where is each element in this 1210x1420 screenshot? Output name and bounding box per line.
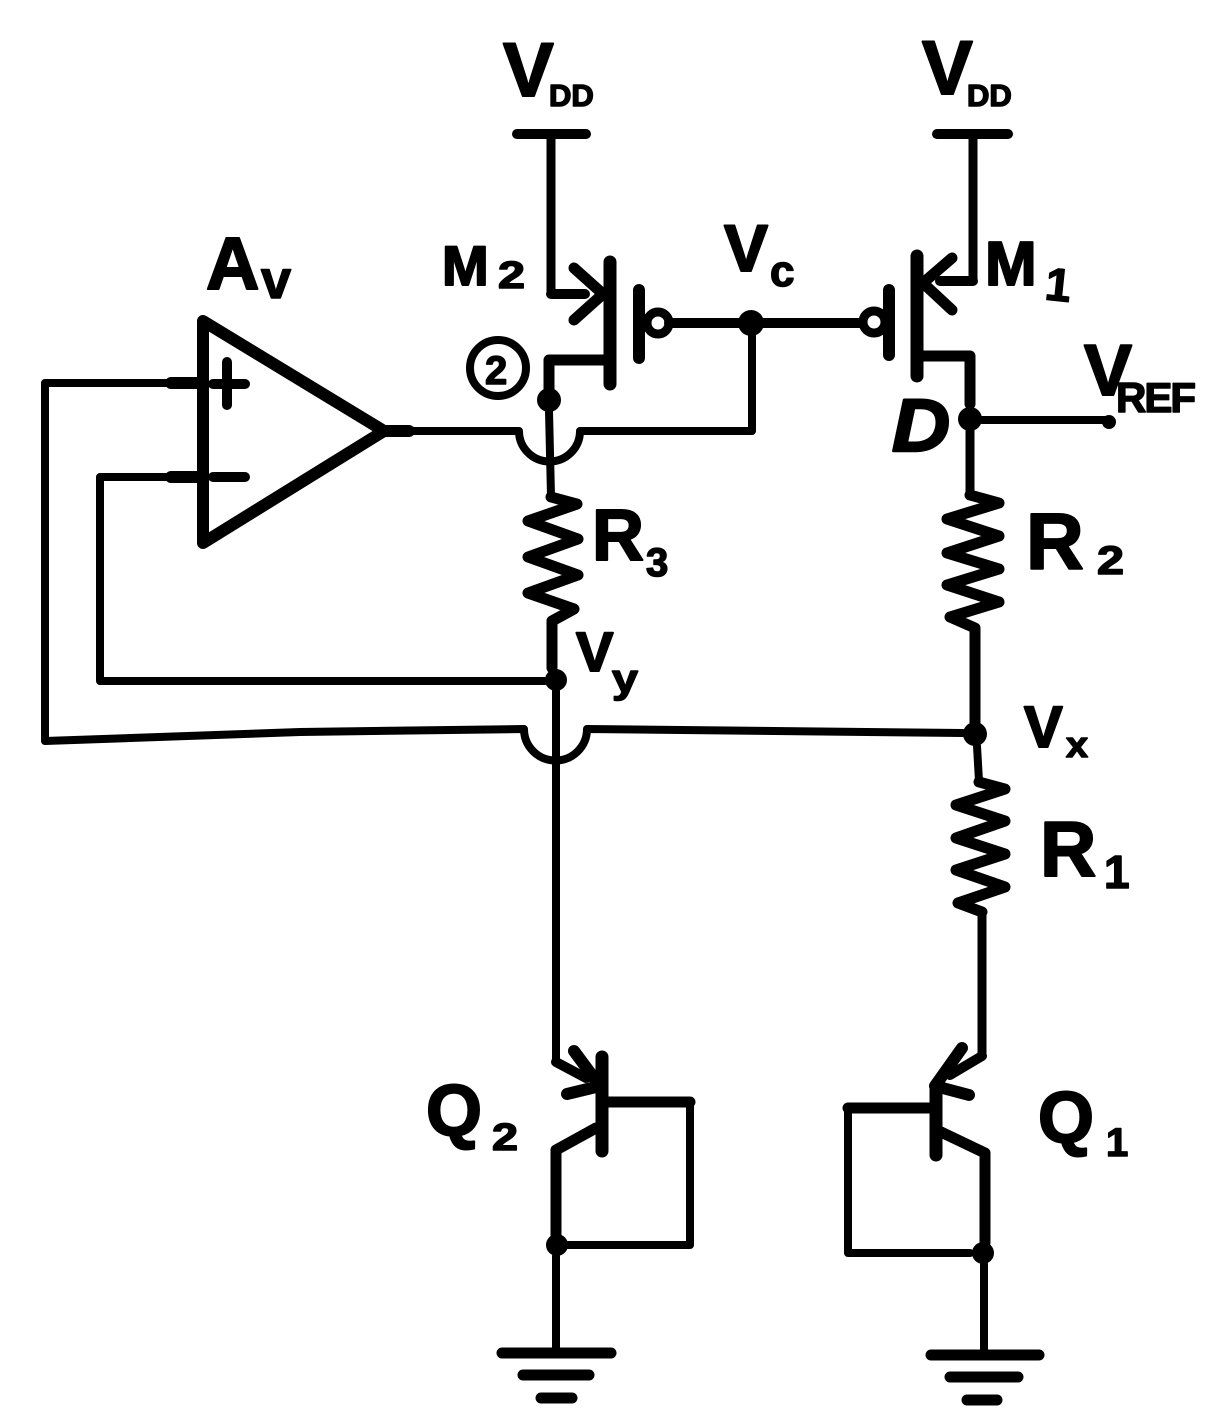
node 2 marker (circled 2) [470, 340, 526, 396]
label VREF [1084, 331, 1195, 421]
svg-text:2: 2 [1097, 539, 1124, 583]
svg-text:y: y [612, 657, 639, 701]
svg-text:REF: REF [1116, 374, 1195, 421]
svg-text:Q: Q [1038, 1078, 1094, 1158]
label VDD left [503, 28, 594, 113]
svg-text:v: v [261, 250, 291, 310]
resistor R1 [956, 782, 1005, 912]
wire Q1 collector to ground [980, 1264, 988, 1353]
wire VREF output [982, 415, 1116, 429]
wire R1 down to Q1 emitter [978, 912, 987, 1056]
label D [892, 384, 950, 467]
label R1 [1040, 805, 1130, 898]
label Vx [1024, 695, 1088, 765]
node Vx junction dot [963, 722, 987, 746]
svg-text:x: x [1066, 724, 1088, 765]
svg-text:1: 1 [1106, 1121, 1128, 1165]
wire Vx to op-amp + input (left feedback rail, hops over Vy wire) [45, 383, 963, 761]
ground left [502, 1353, 611, 1398]
svg-text:V: V [503, 28, 554, 113]
wire Vx down to R1 [977, 746, 979, 781]
label R2 [1026, 497, 1124, 586]
transistor M2 (PMOS) [549, 262, 669, 392]
label Q1 [1038, 1078, 1128, 1165]
node Vc junction dot [738, 310, 764, 336]
wire Vy to op-amp - input (inner feedback rail) [100, 477, 545, 681]
svg-text:R: R [1040, 805, 1096, 893]
ground right [931, 1355, 1039, 1400]
op-amp U1 (Av) [171, 321, 409, 543]
label Av [206, 222, 291, 310]
node Q2 collector junction dot [546, 1234, 568, 1256]
wire Q2 collector to ground [552, 1256, 560, 1353]
svg-text:Q: Q [426, 1071, 482, 1151]
label M1 [985, 230, 1074, 312]
transistor M1 (PMOS) [863, 256, 973, 404]
wire op-amp output to node Vc (hops over M2 drain wire) [409, 323, 752, 461]
resistor R2 [947, 495, 999, 723]
svg-text:2: 2 [492, 1117, 518, 1159]
node Q1 collector junction dot [972, 1242, 994, 1264]
svg-text:V: V [922, 26, 973, 111]
svg-text:DD: DD [967, 78, 1012, 113]
svg-text:D: D [892, 384, 950, 467]
svg-text:M: M [442, 234, 489, 297]
supply rail VDD right [937, 129, 1008, 139]
node: M2 drain junction dot [537, 388, 561, 412]
wire VDD left to M2 source [547, 134, 556, 294]
wire gate bus M2 to M1 [669, 318, 862, 328]
svg-text:M: M [985, 230, 1037, 299]
svg-text:c: c [770, 247, 794, 296]
node Vy junction dot [545, 669, 567, 691]
wire M2 drain down to R3 [549, 411, 551, 496]
svg-text:1: 1 [1104, 846, 1130, 898]
svg-text:2: 2 [498, 255, 525, 297]
node D junction dot [958, 407, 982, 431]
transistor Q1 (PNP, diode-connected) [848, 1048, 985, 1253]
svg-text:DD: DD [549, 78, 594, 113]
svg-text:V: V [724, 211, 768, 285]
label Q2 [426, 1071, 518, 1159]
svg-text:V: V [1024, 695, 1063, 760]
svg-text:2: 2 [485, 349, 507, 393]
label Vy [576, 620, 639, 701]
label R3 [592, 496, 668, 585]
svg-text:R: R [592, 496, 644, 576]
svg-text:A: A [206, 222, 259, 305]
svg-text:R: R [1026, 497, 1084, 586]
svg-text:3: 3 [646, 541, 668, 585]
wire Vy down to Q2 emitter [552, 691, 560, 1062]
wire VDD right to M1 source [969, 134, 978, 281]
resistor R3 [528, 497, 578, 668]
label M2 [442, 234, 525, 297]
wire M1 drain (node D) down to R2 [966, 431, 975, 495]
transistor Q2 (PNP, diode-connected) [556, 1051, 690, 1245]
label Vc [724, 211, 794, 296]
svg-text:1: 1 [1043, 257, 1074, 311]
supply rail VDD left [517, 129, 586, 139]
label VDD right [922, 26, 1012, 113]
svg-text:V: V [576, 620, 613, 683]
